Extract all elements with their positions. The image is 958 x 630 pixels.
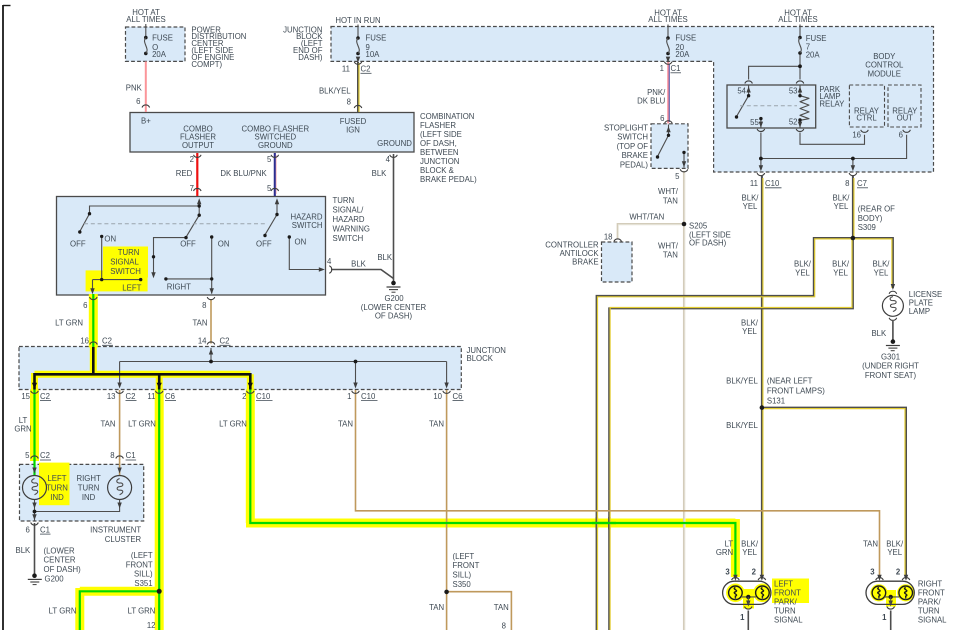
label license plate lamp bbox=[909, 290, 942, 316]
wire LT GRN: 2C10 to left front lamp pin3 bbox=[250, 390, 735, 578]
svg-text:BRAKE PEDAL): BRAKE PEDAL) bbox=[420, 175, 477, 184]
svg-text:BLK/: BLK/ bbox=[741, 540, 759, 549]
connector arc hazard pin4 bbox=[329, 266, 332, 274]
left front park/turn signal lamp body bbox=[723, 581, 771, 604]
svg-text:TURN: TURN bbox=[118, 248, 140, 257]
svg-text:BODY): BODY) bbox=[858, 214, 883, 223]
svg-text:C2: C2 bbox=[40, 451, 50, 460]
stoplight switch: blade bbox=[658, 135, 669, 156]
wire WHT/TAN: S205 branch to controller antilock brake 18 bbox=[618, 224, 684, 239]
label blk/yel fuse9 wire bbox=[319, 86, 351, 95]
svg-text:CLUSTER: CLUSTER bbox=[105, 535, 142, 544]
svg-text:DK BLU/PNK: DK BLU/PNK bbox=[220, 169, 267, 178]
svg-text:1: 1 bbox=[882, 613, 887, 622]
label wht/tan upper bbox=[658, 187, 679, 205]
svg-text:TAN: TAN bbox=[429, 603, 444, 612]
svg-text:SIGNAL: SIGNAL bbox=[774, 616, 803, 625]
svg-text:C7: C7 bbox=[857, 179, 867, 188]
svg-text:TAN: TAN bbox=[494, 603, 509, 612]
license plate lamp symbol bbox=[882, 295, 903, 316]
label junction block bbox=[467, 346, 506, 363]
label hazard switch bbox=[290, 212, 322, 230]
label wht/tan branch bbox=[629, 213, 664, 222]
svg-text:BRAKE: BRAKE bbox=[622, 151, 648, 160]
page left border line bbox=[2, 5, 4, 630]
svg-text:FUSE: FUSE bbox=[366, 34, 387, 43]
connector 5 C2 instrument cluster bbox=[25, 451, 51, 460]
label hot at all times fuse1 bbox=[126, 8, 165, 24]
pin 18 controller bbox=[604, 232, 613, 241]
svg-text:BLK/: BLK/ bbox=[742, 193, 760, 202]
svg-text:2: 2 bbox=[190, 155, 194, 164]
svg-text:YEL: YEL bbox=[742, 548, 757, 557]
junction dot fuse7 feed bbox=[798, 64, 802, 68]
svg-text:HAZARD: HAZARD bbox=[290, 212, 322, 221]
svg-text:4: 4 bbox=[327, 257, 332, 266]
turn signal switch: mechanical dashed link bbox=[84, 223, 267, 225]
svg-text:LT GRN: LT GRN bbox=[49, 607, 77, 616]
svg-text:S131: S131 bbox=[767, 396, 785, 405]
wire: hazard pin4 BLK to G200 bbox=[331, 270, 394, 279]
svg-text:11: 11 bbox=[750, 179, 758, 188]
highlight: wire 2C10 to left front lamp bbox=[246, 390, 735, 578]
stoplight switch: output contact to pin5 bbox=[683, 152, 685, 167]
left front lamp common pin1 bbox=[735, 595, 762, 604]
label pnk wire bbox=[126, 84, 143, 93]
svg-text:5: 5 bbox=[267, 155, 272, 164]
ground G200 right symbol bbox=[387, 281, 401, 293]
label blk cluster ground bbox=[16, 546, 32, 555]
pin 1 C1 fuse20 bbox=[660, 64, 681, 73]
pin 4 hazard bbox=[327, 257, 332, 266]
svg-text:SWITCH: SWITCH bbox=[292, 221, 323, 230]
svg-text:54: 54 bbox=[737, 87, 746, 96]
wire: pin52 to relay ctrl 16 bbox=[800, 133, 865, 145]
svg-text:HOT IN RUN: HOT IN RUN bbox=[335, 16, 380, 25]
svg-text:55: 55 bbox=[750, 118, 759, 127]
svg-text:14: 14 bbox=[198, 337, 207, 346]
relay pin numbers bbox=[737, 87, 797, 127]
wire: left front lamp pin1 down bbox=[747, 611, 749, 630]
left front lamp filament 1 bbox=[729, 586, 743, 600]
svg-text:BLK/: BLK/ bbox=[886, 540, 904, 549]
svg-text:BLK/YEL: BLK/YEL bbox=[726, 376, 758, 385]
left front lamp filament 2 bbox=[756, 586, 770, 600]
wire: relay pin52 exit bbox=[799, 120, 801, 129]
relay coil zigzag bbox=[800, 96, 809, 121]
svg-text:SIGNAL: SIGNAL bbox=[918, 616, 947, 625]
svg-text:ON: ON bbox=[295, 237, 307, 246]
svg-text:LT GRN: LT GRN bbox=[219, 420, 247, 429]
label blk/yel below S131 bbox=[726, 421, 758, 430]
connector 10 C6 junction block exit bbox=[433, 392, 463, 401]
pin 11 C2 fuse9 bbox=[342, 65, 372, 74]
labels lt grn blk/yel left lamp bbox=[716, 540, 759, 558]
instrument cluster box bbox=[20, 464, 144, 521]
fuse F1 value bbox=[152, 34, 173, 60]
svg-text:10A: 10A bbox=[366, 50, 381, 59]
switch position labels middle bbox=[180, 239, 229, 248]
label left contact bbox=[122, 283, 141, 292]
svg-text:TURN: TURN bbox=[918, 607, 940, 616]
svg-text:S205: S205 bbox=[689, 222, 708, 231]
connector 11 C6 junction block exit bbox=[147, 392, 176, 401]
highlight: wire pin6 switch to junction block bbox=[89, 294, 98, 348]
label controller antilock brake bbox=[545, 241, 599, 267]
label hot in run bbox=[335, 16, 380, 25]
svg-text:7: 7 bbox=[190, 184, 194, 193]
svg-text:C1: C1 bbox=[671, 64, 681, 73]
svg-text:53: 53 bbox=[789, 87, 798, 96]
svg-text:TAN: TAN bbox=[192, 319, 207, 328]
wire: fuse7 to relay pins 54 and 53 bbox=[749, 54, 800, 80]
label S309 bbox=[858, 205, 895, 233]
left lamp pin numbers bbox=[725, 568, 756, 622]
svg-text:COMBINATION: COMBINATION bbox=[420, 112, 474, 121]
label B+ bbox=[141, 117, 151, 126]
svg-text:6: 6 bbox=[136, 97, 140, 106]
svg-text:GRN: GRN bbox=[716, 548, 733, 557]
label combo flasher switched ground bbox=[242, 124, 310, 150]
svg-text:BLK/: BLK/ bbox=[832, 260, 850, 269]
svg-text:BLK/: BLK/ bbox=[794, 260, 812, 269]
svg-text:FUSE: FUSE bbox=[675, 34, 696, 43]
instrument cluster: right lamp entry wire bbox=[119, 459, 121, 475]
svg-text:8: 8 bbox=[845, 179, 849, 188]
label left turn ind bbox=[46, 474, 68, 502]
label turn signal hazard warning switch bbox=[333, 196, 370, 243]
label right front park turn signal bbox=[918, 580, 947, 625]
svg-text:5: 5 bbox=[25, 451, 30, 460]
svg-text:(UNDER RIGHT: (UNDER RIGHT bbox=[862, 362, 919, 371]
wire BLK/YEL: S309 to license plate lamp bbox=[853, 238, 893, 288]
power distribution center fuse box bbox=[126, 27, 186, 61]
flasher pin numbers top bbox=[190, 155, 391, 164]
svg-text:SILL): SILL) bbox=[134, 570, 153, 579]
label G301 bbox=[862, 352, 919, 380]
svg-text:PARK/: PARK/ bbox=[918, 598, 942, 607]
wire: relay pin53 entry bbox=[799, 86, 801, 96]
svg-text:OF DASH): OF DASH) bbox=[689, 239, 727, 248]
wire BLK/YEL: S131 branch to right front lamp pin2 bbox=[762, 408, 906, 577]
svg-text:FRONT LAMPS): FRONT LAMPS) bbox=[767, 386, 825, 395]
svg-text:RIGHT: RIGHT bbox=[167, 283, 191, 292]
wire RED: combo flasher output pin2 to pin7 bbox=[196, 153, 198, 196]
labels tan bottom S350 bbox=[429, 603, 509, 630]
svg-text:BLK/YEL: BLK/YEL bbox=[319, 86, 351, 95]
svg-text:DASH): DASH) bbox=[298, 53, 323, 62]
svg-text:C1: C1 bbox=[40, 525, 50, 534]
svg-text:BLK/: BLK/ bbox=[873, 260, 891, 269]
svg-text:YEL: YEL bbox=[833, 268, 848, 277]
svg-text:BRAKE: BRAKE bbox=[572, 257, 598, 266]
label power distribution center bbox=[191, 26, 246, 69]
labels blk/yel at S309 branches bbox=[794, 260, 890, 278]
svg-text:INSTRUMENT: INSTRUMENT bbox=[90, 526, 141, 535]
label instrument cluster bbox=[90, 526, 141, 544]
svg-text:TURN: TURN bbox=[333, 196, 355, 205]
relay out box bbox=[888, 85, 921, 127]
svg-text:G200: G200 bbox=[45, 575, 65, 584]
svg-text:C1: C1 bbox=[126, 451, 136, 460]
controller antilock brake box bbox=[602, 242, 633, 282]
hazard switch: feed wire pin5 bbox=[276, 201, 278, 215]
svg-text:8: 8 bbox=[110, 451, 114, 460]
pin 6 stoplight switch bbox=[660, 114, 664, 123]
svg-text:LT GRN: LT GRN bbox=[55, 319, 83, 328]
label pnk/dk blu wire bbox=[637, 88, 666, 106]
svg-text:LT GRN: LT GRN bbox=[128, 420, 156, 429]
svg-text:OFF: OFF bbox=[70, 239, 86, 248]
svg-text:6: 6 bbox=[660, 114, 664, 123]
label right contact bbox=[167, 283, 191, 292]
svg-text:1: 1 bbox=[347, 392, 351, 401]
svg-text:G301: G301 bbox=[881, 352, 900, 361]
wire LT GRN: switch pin6 to 16C2 bbox=[92, 294, 94, 348]
svg-text:OFF: OFF bbox=[256, 239, 272, 248]
svg-text:20A: 20A bbox=[675, 50, 690, 59]
wire BLK/YEL: S309 center branch down bbox=[609, 238, 853, 630]
splice dot S350 bbox=[444, 590, 449, 595]
connector 6 C1 instrument cluster bbox=[25, 525, 50, 534]
svg-text:YEL: YEL bbox=[795, 268, 810, 277]
svg-text:BLK: BLK bbox=[16, 546, 32, 555]
svg-text:IND: IND bbox=[82, 493, 96, 502]
switch position labels hazard bbox=[256, 237, 306, 248]
label blk license lamp bbox=[871, 329, 887, 338]
label left front park turn signal bbox=[774, 580, 803, 625]
svg-text:SWITCH: SWITCH bbox=[333, 234, 364, 243]
fuse 9 and fuse 20 exit arrowheads bbox=[356, 57, 670, 63]
pin 12 bottom bbox=[147, 621, 156, 630]
svg-text:LEFT: LEFT bbox=[122, 283, 141, 292]
svg-text:5: 5 bbox=[675, 172, 680, 181]
svg-text:OF DASH): OF DASH) bbox=[44, 565, 82, 574]
svg-text:FUSE: FUSE bbox=[152, 34, 173, 43]
svg-text:YEL: YEL bbox=[874, 268, 889, 277]
svg-text:C6: C6 bbox=[453, 392, 463, 401]
svg-text:JUNCTION: JUNCTION bbox=[420, 157, 459, 166]
fuse F9 value bbox=[366, 34, 387, 60]
svg-text:YEL: YEL bbox=[834, 202, 849, 211]
wire: fuse20 top lead bbox=[667, 25, 669, 39]
black bus arrowheads bbox=[32, 383, 253, 389]
svg-text:DK BLU: DK BLU bbox=[637, 97, 666, 106]
switch pin numbers top bbox=[190, 184, 272, 193]
label relay out bbox=[892, 106, 918, 122]
svg-text:TAN: TAN bbox=[663, 251, 678, 260]
svg-text:YEL: YEL bbox=[742, 327, 757, 336]
svg-text:C10: C10 bbox=[256, 392, 271, 401]
svg-text:16: 16 bbox=[852, 130, 861, 139]
connector 15 C2 junction block exit bbox=[21, 392, 51, 401]
label hot at all times fuse7 bbox=[778, 8, 817, 24]
turn signal / hazard warning switch box bbox=[57, 197, 326, 296]
label hot at all times fuse20 bbox=[648, 8, 687, 24]
park lamp relay box bbox=[727, 85, 816, 128]
wire LT GRN: S351 branches to bottom bbox=[80, 591, 159, 630]
svg-text:16: 16 bbox=[80, 337, 89, 346]
svg-text:IND: IND bbox=[50, 493, 64, 502]
label junction block left end of dash bbox=[283, 26, 323, 63]
svg-text:C2: C2 bbox=[40, 392, 50, 401]
svg-text:BLK: BLK bbox=[351, 260, 367, 269]
svg-text:TAN: TAN bbox=[100, 420, 115, 429]
svg-text:LEFT: LEFT bbox=[47, 474, 66, 483]
wire: 6C1 BLK to G200 left bbox=[34, 523, 36, 574]
wire: relay out 6 to bus and 8C7 11C10 bbox=[761, 133, 907, 168]
label blk/yel at S131 bbox=[726, 376, 758, 385]
labels lt grn bottom left bbox=[49, 607, 156, 616]
svg-text:10: 10 bbox=[433, 392, 442, 401]
ground G301 symbol bbox=[886, 339, 900, 350]
wire: fuse9 top lead bbox=[357, 25, 359, 39]
svg-text:ALL TIMES: ALL TIMES bbox=[648, 15, 687, 24]
pin 8 C7 bcm bbox=[845, 179, 868, 188]
junction block: tan distribution wires bbox=[120, 348, 447, 386]
wire TAN: switch pin8 to 14C2 bbox=[210, 299, 212, 344]
svg-text:YEL: YEL bbox=[743, 202, 758, 211]
wire PNK: fuse1 to flasher B+ bbox=[145, 62, 147, 113]
label S350 bbox=[453, 552, 480, 589]
svg-text:BLOCK &: BLOCK & bbox=[420, 166, 455, 175]
svg-text:G200: G200 bbox=[384, 294, 404, 303]
svg-text:(LEFT: (LEFT bbox=[453, 552, 475, 561]
svg-text:13: 13 bbox=[107, 392, 116, 401]
junction block gray arrowheads bbox=[117, 383, 448, 389]
instrument cluster right turn ind lamp bbox=[108, 476, 132, 500]
svg-text:OFF: OFF bbox=[180, 239, 196, 248]
wire BLK/YEL: fuse9 11C2 to flasher fused ign bbox=[358, 62, 359, 112]
splice dot S131 bbox=[760, 405, 765, 410]
svg-text:TURN: TURN bbox=[774, 607, 796, 616]
svg-text:20A: 20A bbox=[152, 50, 167, 59]
label S351 bbox=[126, 551, 153, 588]
svg-text:CONTROL: CONTROL bbox=[865, 61, 904, 70]
wire: right front lamp pin1 down bbox=[890, 611, 892, 630]
wire: fuse7 top lead bbox=[799, 25, 801, 38]
svg-text:TURN: TURN bbox=[78, 484, 100, 493]
label turn signal switch highlighted bbox=[110, 248, 141, 276]
combination flasher box bbox=[130, 113, 414, 153]
stoplight switch box bbox=[651, 124, 688, 169]
svg-text:WHT/TAN: WHT/TAN bbox=[629, 213, 664, 222]
wire LT GRN: 11C6 to S351 bbox=[158, 390, 160, 592]
svg-text:WARNING: WARNING bbox=[333, 224, 370, 233]
wire PNK/DK BLU: fuse20 1C1 to stoplight switch bbox=[668, 62, 669, 124]
pin 8 switch box exit bbox=[202, 301, 206, 310]
svg-text:LT GRN: LT GRN bbox=[128, 607, 156, 616]
label G200 left location bbox=[44, 546, 82, 583]
svg-text:BLK: BLK bbox=[372, 169, 388, 178]
switch position labels left bbox=[70, 234, 116, 248]
svg-text:(LOWER: (LOWER bbox=[44, 546, 76, 555]
ground G200 left symbol bbox=[28, 573, 42, 584]
label G200 right bbox=[361, 294, 427, 320]
svg-text:C2: C2 bbox=[361, 65, 371, 74]
pin 5 stoplight bbox=[675, 172, 680, 181]
svg-text:C2: C2 bbox=[126, 392, 136, 401]
turn signal switch: right circuit vertical pin8 bbox=[166, 237, 212, 294]
highlight: left turn ind label blob bbox=[39, 463, 70, 506]
label tan pin8 wire bbox=[192, 319, 207, 328]
svg-text:52: 52 bbox=[789, 117, 798, 126]
svg-text:STOPLIGHT: STOPLIGHT bbox=[604, 124, 648, 133]
wire DK BLU/PNK: switched ground pin5 bbox=[275, 153, 276, 196]
arrowheads down bbox=[32, 122, 908, 607]
wire: license lamp BLK to G301 bbox=[892, 321, 894, 340]
splice dot S205 bbox=[682, 222, 687, 227]
svg-text:(TOP OF: (TOP OF bbox=[617, 142, 649, 151]
wire BLK/YEL: 8C7 to S309 bbox=[853, 176, 854, 238]
junction dot 1C10 bbox=[354, 360, 358, 364]
svg-text:3: 3 bbox=[870, 568, 875, 577]
svg-text:RED: RED bbox=[176, 169, 193, 178]
highlight: turn signal switch label blob bbox=[103, 247, 148, 278]
label S131 bbox=[767, 376, 825, 405]
connector 13 C2 junction block exit bbox=[107, 392, 137, 401]
svg-text:3: 3 bbox=[725, 568, 730, 577]
svg-text:BETWEEN: BETWEEN bbox=[420, 148, 459, 157]
svg-text:GROUND: GROUND bbox=[258, 141, 293, 150]
svg-text:LAMP: LAMP bbox=[909, 307, 930, 316]
right lamp pin numbers bbox=[870, 568, 901, 622]
svg-text:B+: B+ bbox=[141, 117, 151, 126]
svg-text:FLASHER: FLASHER bbox=[420, 121, 456, 130]
svg-text:BLK/: BLK/ bbox=[833, 193, 851, 202]
svg-text:WHT/: WHT/ bbox=[658, 242, 679, 251]
svg-text:GROUND: GROUND bbox=[377, 139, 412, 148]
svg-text:11: 11 bbox=[342, 65, 350, 74]
pin 11 C10 bcm bbox=[750, 179, 782, 188]
pin 6 flasher b+ bbox=[136, 97, 140, 106]
svg-text:(NEAR LEFT: (NEAR LEFT bbox=[767, 376, 813, 385]
label wht/tan lower bbox=[658, 242, 679, 260]
svg-text:RELAY: RELAY bbox=[819, 100, 845, 109]
connector arcs (frown, wire entering from above) bbox=[31, 81, 910, 580]
arrowhead hazard pin4 right bbox=[319, 267, 325, 271]
highlight: wire 15C2 to instrument cluster bbox=[30, 390, 39, 462]
junction block top strip and body control module combined dashed box bbox=[331, 27, 934, 173]
svg-text:PNK: PNK bbox=[126, 84, 143, 93]
highlight: wire 11C6 to S351 bbox=[155, 390, 164, 592]
fuse F20 value bbox=[675, 34, 696, 60]
svg-text:ALL TIMES: ALL TIMES bbox=[126, 15, 165, 24]
svg-text:SILL): SILL) bbox=[453, 571, 472, 580]
pins 16 and 6 bcm bbox=[852, 130, 903, 139]
svg-text:(LEFT: (LEFT bbox=[131, 551, 153, 560]
svg-text:LT: LT bbox=[725, 540, 734, 549]
connector 14 C2 junction block bbox=[198, 337, 231, 346]
svg-text:IGN: IGN bbox=[346, 125, 360, 134]
svg-text:OF DASH): OF DASH) bbox=[375, 311, 413, 320]
instrument cluster: left lamp entry wire bbox=[33, 459, 35, 475]
svg-text:BLOCK: BLOCK bbox=[467, 354, 494, 363]
turn signal switch: left on contact to left circuit bbox=[93, 236, 141, 292]
wire: relay pin54 entry bbox=[748, 86, 750, 96]
svg-text:TAN: TAN bbox=[863, 540, 878, 549]
junction dot relay net 55 bbox=[759, 157, 763, 161]
fuse F7 value bbox=[806, 34, 827, 59]
svg-text:5: 5 bbox=[267, 184, 272, 193]
svg-text:CENTER: CENTER bbox=[44, 556, 76, 565]
wire BLK/YEL: S309 left branch down left side bbox=[597, 238, 853, 630]
svg-text:FRONT: FRONT bbox=[774, 589, 801, 598]
svg-text:C2: C2 bbox=[102, 337, 112, 346]
svg-text:RIGHT: RIGHT bbox=[76, 474, 100, 483]
fuse element dots bbox=[144, 36, 148, 40]
svg-text:C6: C6 bbox=[165, 392, 175, 401]
